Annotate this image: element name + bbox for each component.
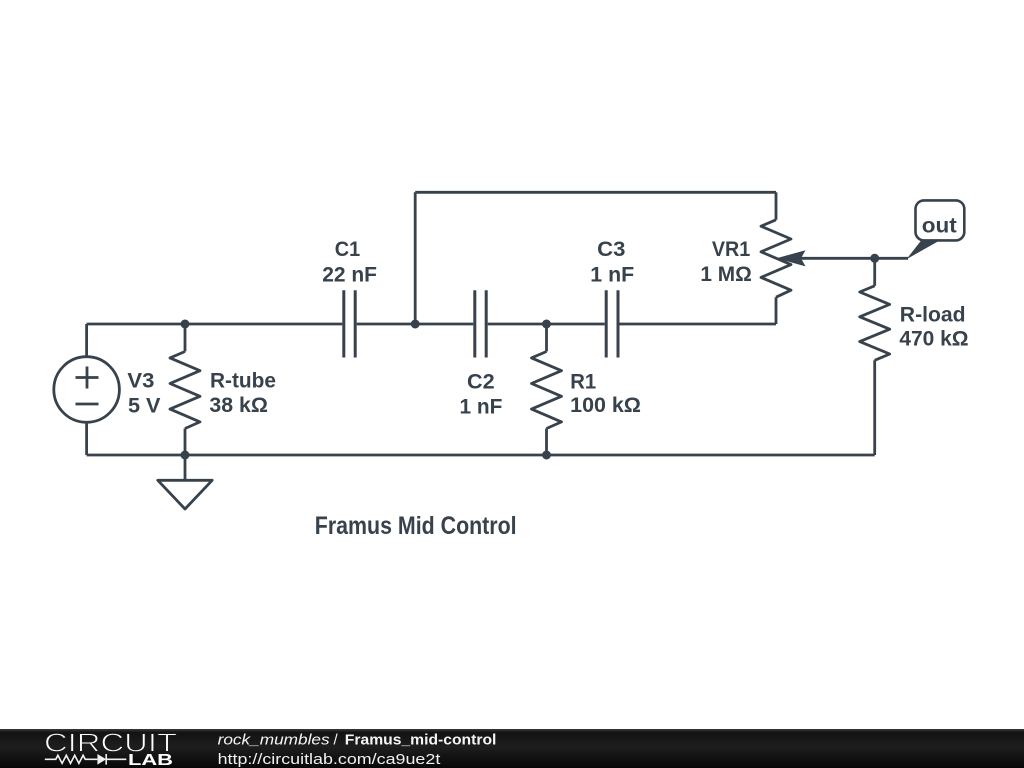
out flag tail: [907, 240, 941, 259]
svg-text:1 nF: 1 nF: [590, 264, 634, 287]
svg-text:/: /: [334, 732, 339, 749]
resistor R-tube zigzag: [170, 352, 200, 429]
svg-text:470 kΩ: 470 kΩ: [899, 328, 968, 351]
svg-text:C2: C2: [467, 370, 495, 393]
capacitor C1 plates: [344, 290, 355, 357]
svg-text:38 kΩ: 38 kΩ: [209, 394, 268, 417]
wire feedback box left vertical: [414, 192, 417, 324]
wire C1 to C2: [357, 323, 474, 326]
footer bar: [0, 729, 1024, 768]
junction node at R1 top: [542, 320, 551, 329]
wire R-tube bottom lead: [184, 429, 187, 456]
capacitor C2 plates: [475, 290, 486, 357]
wire left rail vertical top lead of V3: [85, 324, 88, 357]
wire R1 top lead: [545, 324, 548, 352]
wire wiper to out node: [800, 257, 908, 260]
potentiometer VR1 zigzag: [761, 220, 791, 297]
svg-text:1 MΩ: 1 MΩ: [700, 263, 751, 286]
junction node at R-tube top: [181, 320, 190, 329]
wire R1 bottom lead: [545, 429, 548, 456]
wire VR1 bottom lead: [775, 297, 778, 324]
wire R-load bottom lead: [873, 360, 876, 455]
V3 minus sign: [76, 403, 99, 406]
logo diode triangle: [97, 754, 106, 765]
voltage source V3 circle: [54, 357, 120, 423]
wire top-left rail horizontal: [87, 323, 343, 326]
svg-text:C3: C3: [597, 238, 625, 261]
wire VR1 top lead: [775, 192, 778, 220]
wire C3 to VR1 bottom corner: [620, 323, 777, 326]
svg-text:rock_mumbles: rock_mumbles: [218, 732, 331, 749]
svg-text:V3: V3: [127, 369, 154, 392]
junction node at R1 bottom: [542, 451, 551, 460]
svg-text:Framus Mid Control: Framus Mid Control: [315, 512, 517, 540]
svg-text:5 V: 5 V: [128, 394, 161, 417]
wire C2 to C3: [488, 323, 605, 326]
VR1 wiper arrowhead: [777, 250, 806, 266]
wire bottom lead of V3: [85, 423, 88, 456]
svg-text:LAB: LAB: [128, 752, 173, 768]
wire R-load top lead: [873, 258, 876, 286]
svg-text:out: out: [922, 214, 957, 237]
resistor R-load zigzag: [860, 286, 890, 361]
wire bottom rail: [87, 454, 875, 457]
svg-text:R-tube: R-tube: [210, 369, 276, 392]
junction node at feedback tap: [411, 320, 420, 329]
svg-text:100 kΩ: 100 kΩ: [570, 394, 641, 417]
svg-text:C1: C1: [335, 238, 361, 261]
svg-text:Framus_mid-control: Framus_mid-control: [345, 732, 497, 749]
svg-text:R-load: R-load: [900, 304, 966, 327]
resistor R1 zigzag: [532, 352, 562, 429]
junction node at R-tube bottom: [181, 451, 190, 460]
wire feedback box top: [415, 191, 776, 194]
capacitor C3 plates: [606, 290, 618, 357]
logo resistor-diode symbol: [45, 754, 127, 765]
svg-text:R1: R1: [570, 370, 596, 393]
svg-text:1 nF: 1 nF: [460, 395, 503, 418]
svg-text:VR1: VR1: [712, 238, 751, 261]
svg-text:http://circuitlab.com/ca9ue2t: http://circuitlab.com/ca9ue2t: [218, 751, 442, 768]
junction node at out/R-load: [870, 254, 879, 263]
out flag box: [916, 200, 965, 240]
V3 plus sign: [76, 367, 99, 389]
ground symbol triangle: [158, 480, 212, 509]
wire R-tube top lead: [184, 324, 187, 352]
svg-text:22 nF: 22 nF: [322, 264, 377, 287]
wire ground lead: [184, 455, 187, 480]
